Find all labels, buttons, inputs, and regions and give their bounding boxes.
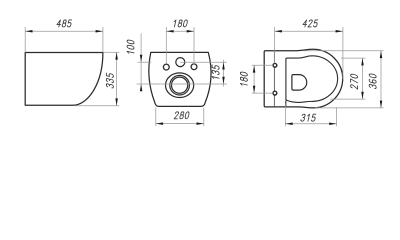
inlet level extension line right <box>180 61 227 63</box>
extension line left of 315 <box>284 104 286 127</box>
dimension line 280 <box>156 123 204 125</box>
arrow left 485 <box>25 30 32 33</box>
label 315 <box>301 114 317 121</box>
extension line right of 180 <box>193 27 195 64</box>
arrow left 280 <box>156 122 163 125</box>
extension line top of 270 <box>341 57 365 59</box>
arrow down 270 <box>361 92 364 99</box>
label 360 <box>369 73 376 88</box>
dimension line 270 <box>362 58 364 99</box>
arrow up 270 <box>361 58 364 65</box>
arrow down 360 <box>380 101 383 108</box>
bolt hole top <box>273 63 277 67</box>
arrow down 335 <box>115 98 118 105</box>
arrow right 485 <box>96 30 103 33</box>
extension line top of 180 right view <box>252 64 273 66</box>
inlet level extension line left <box>138 61 152 63</box>
label 485 <box>56 20 72 27</box>
mounting hole left <box>163 64 169 70</box>
dimension line 360 <box>380 51 382 108</box>
extension line right of 315 <box>336 107 338 126</box>
extension line right of 280 <box>203 108 205 127</box>
arrow up 360 <box>380 51 383 58</box>
label 425 <box>303 20 319 27</box>
arrow left 425 <box>275 30 282 33</box>
arrow up at drain line <box>140 84 143 91</box>
toilet body outer silhouette <box>264 49 343 108</box>
lid back edge line <box>273 51 275 106</box>
extension line left of 280 <box>155 108 157 127</box>
extension line bottom of 180 right view <box>252 92 273 94</box>
step edge below rim <box>285 100 287 106</box>
dimension line 335 <box>116 52 118 105</box>
arrow right 180 <box>187 30 194 33</box>
arrow up 135 <box>222 62 225 69</box>
extension line left of 180 <box>165 27 167 64</box>
label 135 <box>212 65 219 80</box>
arrow up 335 <box>115 52 118 59</box>
dimension line 180 <box>166 30 194 32</box>
bolt hole bottom <box>273 91 277 95</box>
label 100 <box>127 39 134 54</box>
arrow right 280 <box>197 122 204 125</box>
dimension line 180 right view <box>253 65 255 93</box>
drain middle circle <box>170 75 190 95</box>
extension line bottom of 270 <box>330 98 365 100</box>
extension line left of 485 <box>24 27 26 53</box>
arrow left 180 <box>166 30 173 33</box>
extension line top of 335 <box>104 51 120 53</box>
arrow left 315 <box>285 123 292 126</box>
arrow down 100 <box>140 55 143 62</box>
dimension line 485 <box>25 30 103 32</box>
label 180 <box>173 20 188 27</box>
dimension line 100 <box>140 33 142 91</box>
label 280 <box>174 112 189 119</box>
drain level extension line <box>137 83 227 85</box>
label 335 <box>106 73 113 89</box>
extension line right of 425 <box>342 27 344 79</box>
extension line bottom of 360 <box>315 107 384 109</box>
label 270 <box>351 74 358 89</box>
water inlet circle <box>176 58 185 67</box>
drain outer ellipse <box>166 73 194 98</box>
extension line top of 360 <box>303 50 384 52</box>
arrow down 180 right <box>253 86 256 93</box>
arrow down 135 <box>222 77 225 84</box>
arrow up 180 right <box>253 65 256 72</box>
drain inner circle <box>172 77 188 93</box>
dimension line 315 <box>285 123 336 125</box>
inner sump D shape <box>292 75 307 91</box>
bowl rim inner outline <box>286 56 338 103</box>
extension line left of 425 <box>274 27 276 63</box>
extension line right of 485 <box>102 27 104 53</box>
extension line bottom of 335 <box>74 105 119 107</box>
tank/back outline <box>149 52 211 106</box>
arrow right 315 <box>329 123 336 126</box>
toilet side outline <box>25 53 103 106</box>
dimension line 425 <box>275 30 343 32</box>
arrow right 425 <box>336 30 343 33</box>
dimension line 135 <box>223 60 225 87</box>
mounting hole right <box>191 64 197 70</box>
label 180 right <box>240 72 247 87</box>
